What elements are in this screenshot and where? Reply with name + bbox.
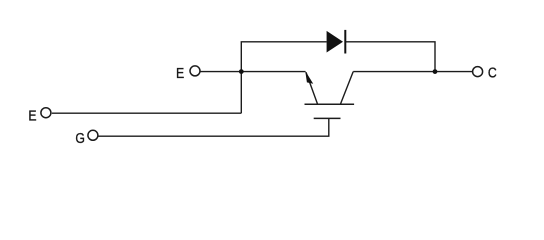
wire: collector run to terminal C: [353, 71, 472, 73]
diode D1 (anode triangle): [327, 31, 343, 53]
junction node at collector rail: [433, 69, 438, 74]
transistor Q1 emitter arrowhead: [305, 71, 313, 84]
diode D1 cathode bar: [344, 30, 346, 54]
wire: top rail from node E to diode anode: [241, 42, 326, 113]
transistor Q1 body bar: [305, 103, 355, 105]
terminal C circle (collector): [473, 67, 483, 77]
transistor Q1 emitter slant: [306, 72, 318, 104]
svg-text:E: E: [176, 65, 184, 81]
svg-text:E: E: [28, 107, 36, 123]
wire: top rail from diode cathode to node C: [345, 42, 435, 72]
svg-text:C: C: [488, 64, 497, 80]
svg-text:G: G: [75, 130, 85, 146]
terminal E1 circle (left emitter): [41, 108, 51, 118]
wire: left emitter terminal E1 run: [52, 112, 242, 114]
wire: emitter terminal E2 to IGBT emitter: [200, 71, 305, 73]
transistor Q1 gate bar: [314, 117, 341, 119]
terminal E2 circle (emitter sense): [190, 66, 200, 76]
terminal G circle (gate): [88, 130, 98, 140]
transistor Q1 collector slant: [340, 72, 353, 105]
junction node at emitter rail: [239, 69, 244, 74]
wire: gate terminal G run: [98, 118, 328, 136]
